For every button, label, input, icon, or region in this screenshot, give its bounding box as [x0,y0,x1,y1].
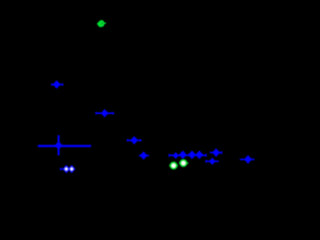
white core of W1 [64,167,68,172]
point P4 big cross errorbars [38,145,91,147]
row errorbar line with end caps [169,154,206,156]
point P10 errorbar [210,152,222,154]
point P2 diamond [101,109,109,117]
point P10 big diamond [212,148,220,157]
point P12 errorbar [240,158,254,160]
point P7 diamond [179,151,187,160]
point P11 diamond [209,158,216,165]
point P4 diamond [55,141,63,149]
green circle G3 [180,160,186,166]
white core of W2 [70,167,74,172]
point P1 diamond [53,80,61,89]
white-core pair errorbar [60,168,66,170]
point P2 errorbar [96,112,114,114]
point P3 diamond [130,136,138,144]
point P8 diamond [188,151,196,160]
point P3 errorbar [127,139,141,141]
point P11 errorbar [206,160,219,162]
green limit marker G1 tail [103,22,106,24]
green circle G2 errorbar [169,165,178,167]
point P5 errorbar [139,155,149,157]
point P1 errorbar [52,84,63,86]
green circle G2 [171,163,177,169]
point P5 diamond [140,151,148,159]
point P12 diamond [244,155,252,164]
green circle G3 errorbar [179,162,188,164]
green limit marker G1 blob [97,20,104,27]
white-core diamond W2 [68,165,76,173]
point P9 diamond [196,151,204,160]
point P6 small diamond [173,152,179,159]
green limit marker G1 dark notch [102,23,103,24]
white-core diamond W1 [63,165,71,173]
